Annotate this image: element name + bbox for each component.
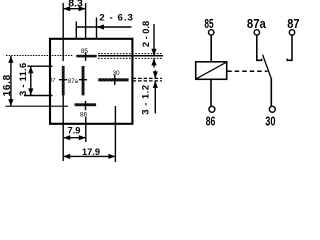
svg-text:87a: 87a [247,16,267,31]
svg-text:30: 30 [112,70,120,77]
svg-text:3 - 11.6: 3 - 11.6 [18,63,28,96]
svg-text:8.3: 8.3 [68,0,83,9]
svg-text:3 - 1.2: 3 - 1.2 [141,84,151,114]
svg-text:87a: 87a [68,79,79,85]
svg-text:2 - 0.8: 2 - 0.8 [141,21,151,47]
svg-text:86: 86 [80,111,88,118]
svg-text:87: 87 [287,16,299,31]
svg-text:85: 85 [81,48,89,55]
svg-text:17.9: 17.9 [82,147,100,157]
svg-text:85: 85 [204,16,213,31]
svg-text:16.8: 16.8 [2,74,13,96]
svg-text:87: 87 [49,78,55,84]
svg-text:86: 86 [206,113,216,128]
svg-text:2 - 6.3: 2 - 6.3 [99,13,134,24]
svg-text:30: 30 [265,114,275,129]
svg-text:7.9: 7.9 [68,126,81,136]
